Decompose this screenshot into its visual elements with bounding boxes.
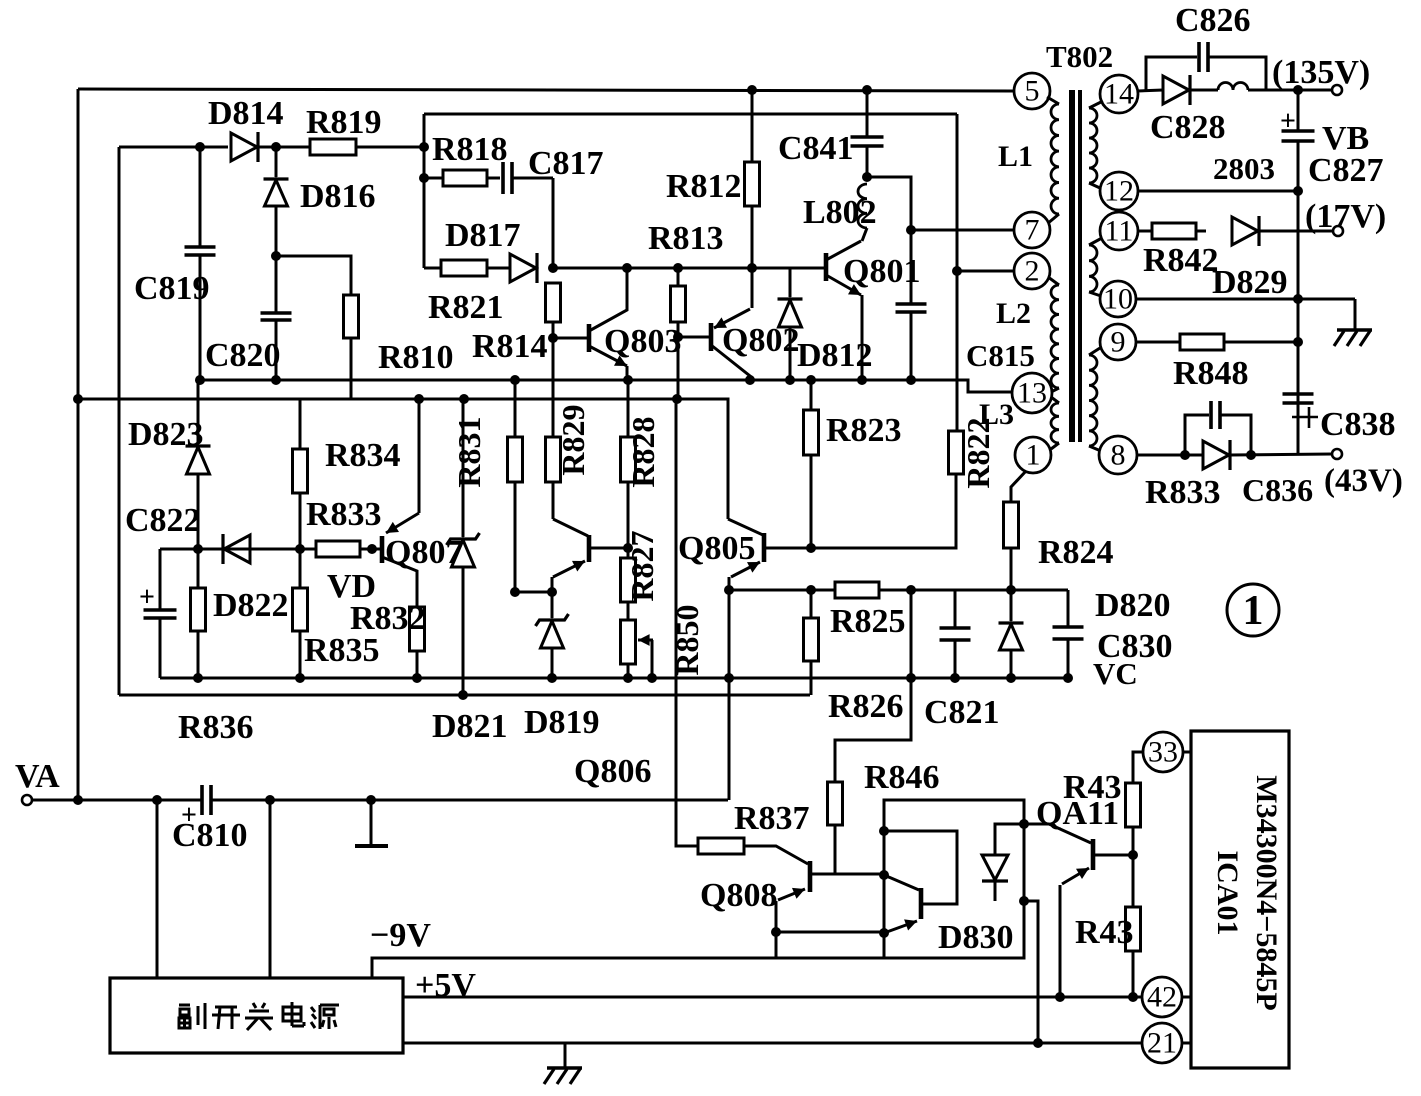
label D830	[938, 919, 1014, 956]
junction E0 (frame tap)	[73, 394, 83, 404]
wire top frame rail	[78, 89, 1013, 91]
resistor R43b	[1126, 907, 1141, 951]
svg-text:R43: R43	[1075, 914, 1134, 951]
label QA11	[1036, 795, 1119, 832]
label C810	[172, 817, 248, 854]
resistor R822	[949, 431, 964, 474]
label D816	[300, 178, 376, 215]
ground chassis (secondary)	[1334, 330, 1372, 346]
transistor Q808	[744, 846, 883, 932]
wire Q805 base to R822	[811, 474, 956, 548]
wire R831 to D819 node	[515, 591, 552, 594]
capacitor C820	[261, 256, 292, 380]
wire D814 to R819	[258, 146, 310, 149]
resistor R846	[828, 782, 843, 874]
wire left frame rail	[77, 89, 80, 800]
label Q807	[385, 534, 462, 571]
label D814	[208, 95, 284, 132]
pin 13	[1012, 373, 1052, 413]
wire sample rail y590	[729, 589, 1068, 592]
label R836	[178, 709, 254, 746]
svg-text:R829: R829	[555, 404, 591, 475]
terminal (17V)	[1333, 226, 1343, 236]
label R821	[428, 289, 504, 326]
label D823	[128, 416, 204, 453]
junction F12 (R827 string on bus)	[623, 673, 633, 683]
junction F13 (wiper on bus)	[647, 673, 657, 683]
wire gnd rail stub	[564, 1043, 567, 1068]
transistor QA11	[1049, 824, 1133, 997]
junction E2 (VD tap)	[459, 394, 469, 404]
svg-text:R848: R848	[1173, 355, 1249, 392]
capacitor C817	[487, 162, 553, 194]
label R814	[472, 328, 548, 365]
label C838	[1320, 406, 1396, 443]
wire coupler collector loop	[884, 831, 957, 904]
svg-text:D823: D823	[128, 416, 204, 453]
junction F7 (VD on lower bus)	[458, 690, 468, 700]
junction C1 (C841 bottom node)	[862, 172, 872, 182]
svg-text:D817: D817	[445, 217, 521, 254]
capacitor C827 VB (electrolytic)	[1280, 90, 1315, 453]
pin 5	[1014, 73, 1050, 109]
svg-text:C828: C828	[1150, 109, 1226, 146]
transformer core bar right	[1078, 90, 1082, 442]
label R834	[325, 437, 401, 474]
junction F2 (R834/R835 node)	[295, 544, 305, 554]
svg-text:1: 1	[1243, 588, 1264, 634]
svg-text:14: 14	[1104, 78, 1134, 111]
junction F9 (D819 node)	[547, 587, 557, 597]
svg-text:R850: R850	[669, 604, 705, 675]
transistor Q805	[728, 519, 811, 590]
label (17V)	[1305, 198, 1386, 235]
svg-text:+: +	[139, 582, 155, 613]
wire C841 node to pin7 riser	[867, 177, 911, 230]
junction B9 (Q802 emitter/R812)	[747, 263, 757, 273]
junction A1 (D814 anode tap)	[195, 142, 205, 152]
label R848	[1173, 355, 1249, 392]
diode D820 (zener)	[999, 590, 1024, 678]
resistor R832	[410, 607, 425, 678]
label L3	[979, 398, 1014, 431]
label R833	[306, 496, 382, 533]
diode R833b	[1203, 440, 1230, 470]
junction K2 (coupler collector tap)	[879, 826, 889, 836]
wire node to pin 2	[957, 270, 1015, 273]
label C841	[778, 130, 854, 167]
wire pin 10 ground rail	[1137, 298, 1355, 301]
label R829 (rotated)	[555, 404, 591, 475]
svg-text:R833: R833	[1145, 474, 1221, 511]
resistor R833 (base)	[316, 541, 360, 557]
junction F11 (driver base node)	[623, 543, 633, 553]
svg-text:D829: D829	[1212, 264, 1288, 301]
junction J3 (box drop 2)	[265, 795, 275, 805]
svg-text:R825: R825	[830, 603, 906, 640]
junction B7 (R813 top)	[673, 263, 683, 273]
pin 11	[1100, 212, 1138, 250]
svg-text:C821: C821	[924, 694, 1000, 731]
pin 2	[1014, 253, 1050, 289]
svg-text:C838: C838	[1320, 406, 1396, 443]
winding S2 (11-10)	[1089, 238, 1102, 296]
label D821	[432, 708, 508, 745]
junction C2 (Q801 emitter on bus)	[857, 375, 867, 385]
svg-text:R824: R824	[1038, 534, 1114, 571]
label L2	[996, 297, 1031, 330]
junction B5 (Q803 collector)	[622, 263, 632, 273]
wire VA rail left	[32, 799, 202, 802]
junction F3 (Q807 base)	[367, 544, 377, 554]
label R823	[826, 412, 902, 449]
wire gnd rail	[403, 1042, 1142, 1045]
junction E3 (Q806 feed tap)	[672, 394, 682, 404]
terminal (43V)	[1332, 449, 1342, 459]
junction J4 (gnd stub)	[366, 795, 376, 805]
svg-text:12: 12	[1104, 175, 1134, 208]
svg-text:L802: L802	[803, 194, 877, 231]
label R43b	[1075, 914, 1134, 951]
wire Q808 emitter to -9V	[775, 932, 778, 958]
label D819	[524, 704, 600, 741]
svg-text:VC: VC	[1093, 656, 1138, 691]
winding L3	[1051, 397, 1059, 449]
label D812	[797, 337, 873, 374]
svg-text:D812: D812	[797, 337, 873, 374]
label R818	[432, 131, 508, 168]
label (43V)	[1324, 463, 1403, 499]
pin 9	[1100, 324, 1136, 360]
transistor Q-D819 driver	[552, 519, 627, 592]
resistor R829	[546, 437, 561, 519]
svg-text:D822: D822	[213, 587, 289, 624]
label R833b	[1145, 474, 1221, 511]
junction H5 (C836 tap left)	[1180, 450, 1190, 460]
capacitor C822 (electrolytic)	[139, 549, 177, 678]
junction J2 (box drop 1)	[152, 795, 162, 805]
svg-text:R812: R812	[666, 168, 742, 205]
svg-text:9: 9	[1111, 326, 1126, 359]
wire Q805 emitter to VA rail	[728, 678, 731, 800]
label C817	[528, 145, 604, 182]
diode D822a (points left)	[223, 534, 250, 564]
junction T1 (R812 top on frame)	[747, 85, 757, 95]
wire node to pin 7	[911, 229, 1015, 232]
junction G3 (emitter on bus)	[724, 673, 734, 683]
junction G6 (C821 on bus)	[950, 673, 960, 683]
label Q808	[700, 877, 777, 914]
wire bus to D814	[119, 146, 228, 149]
label R846	[864, 759, 940, 796]
label C820	[205, 337, 281, 374]
junction D5 (R823 tap)	[806, 375, 816, 385]
box sub switching supply	[110, 978, 403, 1053]
diode D823 (zener)	[186, 380, 211, 549]
wire -9V rail	[372, 958, 884, 978]
resistor R824	[1004, 471, 1027, 590]
svg-text:D816: D816	[300, 178, 376, 215]
junction F10 (D819 on bus)	[547, 673, 557, 683]
label R850 (rotated)	[669, 604, 705, 675]
svg-text:T802: T802	[1046, 39, 1113, 74]
svg-text:Q808: Q808	[700, 877, 777, 914]
svg-text:(43V): (43V)	[1324, 463, 1403, 499]
label C821	[924, 694, 1000, 731]
svg-text:D820: D820	[1095, 587, 1171, 624]
svg-text:D819: D819	[524, 704, 600, 741]
inductor L802	[858, 184, 867, 241]
junction K6 (LED cathode on box)	[1019, 896, 1029, 906]
pin 12	[1100, 172, 1138, 210]
zener D819	[536, 592, 569, 678]
junction H6 (C836 tap right)	[1246, 450, 1256, 460]
svg-text:R822: R822	[960, 417, 996, 488]
diode D816 (zener)	[264, 147, 289, 256]
junction D4 (D812 tap)	[785, 375, 795, 385]
wire R819 to inner box	[356, 146, 424, 149]
junction B8 (Q802 base tap)	[673, 332, 683, 342]
resistor R821	[424, 260, 487, 276]
wire pin33 to IC	[1183, 751, 1191, 754]
junction K5 (LED anode on box)	[1019, 819, 1029, 829]
transistor Q803	[553, 268, 627, 380]
svg-text:L1: L1	[998, 140, 1033, 173]
label (135V)	[1272, 54, 1370, 91]
label R810	[378, 339, 454, 376]
wire inner box right edge / pin2 riser	[956, 114, 959, 431]
resistor R826	[804, 590, 819, 695]
wire pin 12 to VB rail	[1139, 190, 1298, 193]
junction F4 (D822 on bus)	[193, 673, 203, 683]
label D817	[445, 217, 521, 254]
wire +5V rail	[403, 996, 1142, 999]
symbol circled 1	[1227, 584, 1279, 636]
junction K8 (QA11 emitter on +5V)	[1055, 992, 1065, 1002]
resistor R818	[424, 170, 487, 186]
IC ICA01 box	[1191, 731, 1289, 1068]
winding S1 (14-12)	[1089, 101, 1103, 188]
wire Q806 feed line	[676, 399, 698, 846]
svg-text:D814: D814	[208, 95, 284, 132]
pin 21	[1142, 1023, 1182, 1063]
junction E1 (Q807 emitter tap)	[414, 394, 424, 404]
svg-text:C815: C815	[966, 338, 1035, 373]
label +5V	[415, 967, 476, 1004]
label R43a	[1063, 769, 1122, 806]
svg-text:R836: R836	[178, 709, 254, 746]
diode D828/C828	[1163, 75, 1190, 105]
svg-text:C810: C810	[172, 817, 248, 854]
wire QA11 base feed	[1024, 823, 1049, 826]
label R812	[666, 168, 742, 205]
svg-text:C817: C817	[528, 145, 604, 182]
label VA	[15, 758, 60, 795]
ground stub bar	[355, 800, 388, 846]
wire inner box top edge	[424, 113, 957, 116]
capacitor C821	[940, 590, 971, 678]
junction D3 (R831 tap)	[510, 375, 520, 385]
svg-text:8: 8	[1111, 439, 1126, 472]
wire R822 top riser	[0, 0, 1, 1]
svg-text:R826: R826	[828, 688, 904, 725]
label 2803	[1213, 151, 1275, 186]
junction K10 (R43b on +5V)	[1128, 992, 1138, 1002]
label R825	[830, 603, 906, 640]
wire to 135V node	[1248, 89, 1332, 92]
junction F6 (R832 on bus)	[412, 673, 422, 683]
diode D812 (zener)	[778, 268, 803, 380]
label C836	[1242, 472, 1313, 508]
svg-text:10: 10	[1103, 283, 1133, 316]
pin 7	[1014, 212, 1050, 248]
wire 17V rail	[1259, 230, 1332, 233]
resistor R812	[745, 91, 760, 268]
junction A3 (D816 cathode node)	[271, 251, 281, 261]
resistor R837	[698, 838, 744, 854]
junction F5 (R835 on bus)	[295, 673, 305, 683]
svg-text:D830: D830	[938, 919, 1014, 956]
wire box drop 2	[269, 800, 272, 978]
junction J1 (frame on VA)	[73, 795, 83, 805]
junction B1 (R819/box)	[419, 142, 429, 152]
label R824	[1038, 534, 1114, 571]
junction F1 (D823 anode)	[193, 544, 203, 554]
wire D816 node to R810	[276, 256, 351, 295]
label R819	[306, 104, 382, 141]
junction T2 (C841 top on frame)	[862, 85, 872, 95]
junction H2 (12 on VB rail)	[1293, 186, 1303, 196]
junction B6 (Q803 emitter on bus)	[623, 375, 633, 385]
label C830	[1097, 628, 1173, 665]
junction K9 (QA11 collector node)	[1128, 850, 1138, 860]
junction G5 (C821 feed)	[906, 585, 916, 595]
svg-text:R813: R813	[648, 220, 724, 257]
pin 8	[1099, 436, 1137, 474]
pin 33	[1143, 732, 1183, 772]
svg-text:C836: C836	[1242, 472, 1313, 508]
svg-text:Q803: Q803	[604, 323, 681, 360]
capacitor C826 bypass loop	[1146, 42, 1266, 90]
label C828	[1150, 109, 1226, 146]
svg-text:21: 21	[1147, 1027, 1177, 1060]
label C822	[125, 502, 201, 539]
wire bus-1 (feedback rail y380)	[200, 380, 1014, 392]
svg-text:C819: C819	[134, 270, 210, 307]
junction G8 (D820 on bus)	[1006, 673, 1016, 683]
wire ground drop	[1354, 299, 1357, 330]
wire box drop 1	[156, 800, 159, 978]
label R828 (rotated)	[625, 416, 661, 487]
junction B2 (R818 branch)	[419, 173, 429, 183]
junction G7 (D820 top node)	[1006, 585, 1016, 595]
junction F8 (R831 bottom elbow)	[510, 587, 520, 597]
winding S3 (9-8)	[1089, 348, 1101, 451]
svg-text:C841: C841	[778, 130, 854, 167]
wire R814 to R829	[552, 322, 555, 437]
wire error amp rail y549	[160, 548, 316, 551]
svg-text:33: 33	[1148, 736, 1178, 769]
resistor R827	[621, 548, 636, 620]
svg-text:11: 11	[1105, 215, 1134, 248]
junction B4 (Q803 base tap)	[548, 333, 558, 343]
label Q801	[843, 253, 920, 290]
svg-text:−9V: −9V	[370, 917, 431, 954]
junction K7 (cathode to gnd rail)	[1033, 1038, 1043, 1048]
diode D829	[1196, 216, 1259, 246]
label D829	[1212, 264, 1288, 301]
label VC	[1093, 656, 1138, 691]
label C815	[966, 338, 1035, 373]
junction C3 (pin7 node)	[906, 225, 916, 235]
label R837	[734, 800, 810, 837]
resistor R842	[1138, 223, 1196, 239]
junction D6 (C815 tap)	[906, 375, 916, 385]
wire 43V rail	[1230, 454, 1332, 455]
label C826	[1175, 2, 1251, 39]
junction C4 (pin2 node)	[952, 266, 962, 276]
wire R43b to +5V rail	[1132, 951, 1135, 997]
junction G9 (C830 on bus)	[1063, 673, 1073, 683]
svg-text:R827: R827	[624, 530, 660, 601]
diode D814	[231, 132, 258, 162]
wire pin 8 rail	[1137, 454, 1202, 457]
wire LED cathode out	[1024, 901, 1038, 1043]
box optocoupler D830	[884, 800, 1024, 958]
capacitor C836 loop	[1185, 401, 1251, 455]
svg-text:VD: VD	[327, 568, 376, 605]
wire bus-2 (supply rail y399)	[78, 399, 728, 519]
svg-text:D821: D821	[432, 708, 508, 745]
resistor-box D822	[191, 549, 206, 678]
label Q806	[574, 753, 651, 790]
pin 10	[1100, 281, 1136, 317]
inductor secondary filter	[1191, 83, 1248, 90]
svg-text:Q806: Q806	[574, 753, 651, 790]
svg-text:13: 13	[1017, 377, 1047, 410]
junction G1 (Q805 base node)	[806, 543, 816, 553]
label R813	[648, 220, 724, 257]
diode D830 LED	[982, 824, 1024, 901]
wire R810 to lower bus	[350, 338, 353, 399]
transistor Q802	[678, 268, 752, 380]
resistor R825	[835, 582, 879, 598]
resistor R831	[508, 380, 523, 592]
label L802	[803, 194, 877, 231]
svg-text:7: 7	[1025, 214, 1040, 247]
svg-text:R834: R834	[325, 437, 401, 474]
svg-text:R814: R814	[472, 328, 548, 365]
resistor R834	[293, 399, 308, 549]
label C827	[1308, 152, 1384, 189]
svg-text:R837: R837	[734, 800, 810, 837]
ground chassis (logic)	[544, 1068, 582, 1084]
resistor R814	[546, 283, 561, 322]
svg-text:C827: C827	[1308, 152, 1384, 189]
wire emitter rail to coupler	[776, 931, 884, 934]
wire C817 down leg	[552, 178, 555, 268]
capacitor C838	[1283, 394, 1319, 428]
junction G2 (Q805 emitter node)	[724, 585, 734, 595]
svg-text:R43: R43	[1063, 769, 1122, 806]
phototransistor Q806b	[884, 875, 921, 933]
svg-text:R846: R846	[864, 759, 940, 796]
svg-text:R819: R819	[306, 104, 382, 141]
wire R43a to R43b	[1132, 827, 1135, 907]
label L1	[998, 140, 1033, 173]
resistor R848	[1180, 334, 1224, 350]
label ICA01 (rotated)	[1211, 850, 1244, 935]
